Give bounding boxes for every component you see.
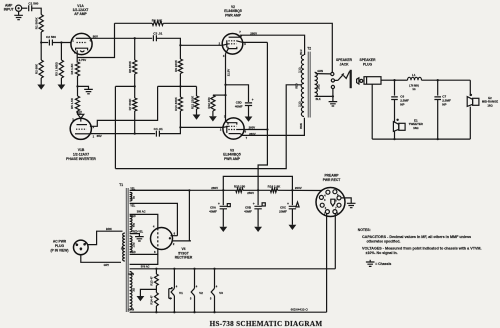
node E1 return [393, 138, 395, 140]
capacitor C7 2.5MF NP [434, 80, 451, 139]
socket PREAMP PWR RECT [316, 174, 345, 217]
svg-text:PWR AMP: PWR AMP [225, 13, 242, 17]
tube V4 5Y3GT RECTIFIER [151, 224, 191, 254]
node R8 bottom bus [134, 85, 136, 87]
capacitor C1 560 [28, 2, 38, 12]
wire jack sleeve down [332, 89, 334, 102]
wire socket pin6 to ground [341, 198, 351, 203]
wire V2 cathode down [225, 54, 227, 122]
svg-text:40MF: 40MF [244, 209, 252, 213]
svg-text:GRN: GRN [317, 70, 323, 73]
svg-text:GRN: GRN [128, 272, 134, 276]
wire T1 RED filament to V4 pin4 [130, 214, 158, 228]
wire T1 YEL top HV [130, 187, 190, 191]
label BLU [300, 49, 303, 54]
wire V1B cathode to C4 line [90, 133, 135, 135]
label 200V [295, 186, 302, 190]
node C4 left junction [134, 132, 136, 134]
node V1A cathode bottom [76, 85, 78, 87]
capacitor C5B 40MF [244, 190, 265, 227]
svg-text:3Ω: 3Ω [133, 196, 136, 199]
wire V4 output riser [189, 190, 190, 241]
label .26 ohm [318, 84, 321, 89]
svg-text:250V: 250V [247, 191, 254, 195]
svg-text:20MF: 20MF [279, 209, 287, 213]
ground under C5C [289, 225, 297, 230]
svg-text:3.0V: 3.0V [76, 110, 82, 114]
wire V2 screen to riser [243, 41, 268, 43]
svg-text:R4 1.5K: R4 1.5K [70, 63, 74, 75]
speaker jack J2 [331, 58, 353, 88]
wire V1B plate to right [90, 86, 158, 126]
svg-text:GRY: GRY [104, 263, 110, 267]
wire V1A cathode down [76, 54, 78, 62]
wire socket pin8 heater [334, 214, 336, 269]
resistor R9 220K [174, 45, 183, 86]
speaker plug P2 [357, 58, 381, 84]
resistor R12 150 [207, 95, 226, 116]
capacitor C4 .01 [135, 127, 181, 137]
node cathode C5D branch [224, 84, 226, 86]
svg-text:4: 4 [324, 194, 326, 198]
svg-text:BLU: BLU [300, 49, 303, 54]
label 2.1 ohm lower [298, 101, 301, 106]
svg-text:BRN: BRN [300, 123, 303, 129]
svg-text:7: 7 [239, 30, 241, 34]
ground at hum balance [137, 296, 145, 301]
resistor R2 68K [35, 43, 44, 85]
wire V4 filament stub [157, 249, 159, 255]
part number 66D64433-O [291, 307, 309, 311]
svg-text:V3: V3 [219, 291, 223, 295]
svg-text:.5Ω: .5Ω [133, 288, 136, 292]
speaker E1 TWEETER 16 ohm [393, 118, 423, 139]
ground at socket pin6 [347, 203, 356, 207]
wire feedback cathode segment [78, 23, 115, 57]
svg-text:PLUG: PLUG [55, 244, 65, 248]
label V4 [175, 247, 193, 260]
resistor R6 10K [115, 18, 164, 25]
wire to V2 grid [180, 44, 221, 46]
wire V2 plate to T2 [240, 35, 305, 55]
grid entry triangle V1B [78, 114, 84, 118]
svg-text:BRN: BRN [106, 227, 112, 231]
node V3 grid junction [179, 126, 181, 128]
svg-text:65V: 65V [97, 134, 102, 138]
label BRN lead [106, 227, 112, 231]
svg-text:±10%. No signal in.: ±10%. No signal in. [366, 251, 398, 255]
socket pins [319, 190, 341, 216]
wire V1A plate to C3 node [91, 37, 135, 39]
svg-text:40MF: 40MF [235, 105, 243, 109]
svg-text:4: 4 [196, 285, 198, 289]
wire B plus bus [132, 189, 236, 191]
ground under C5B [254, 227, 262, 232]
wire hum balance to ground [140, 289, 156, 296]
wire feedback to speaker jack [163, 23, 332, 72]
svg-text:V1B: V1B [78, 148, 85, 152]
tube V2 EL84/6BQ5 PWR AMP [219, 5, 247, 58]
ground chassis symbol in notes [366, 260, 392, 267]
node C7 return [437, 138, 439, 140]
node 260V [222, 189, 224, 191]
svg-text:NOTES:: NOTES: [358, 228, 371, 232]
inductor L1 .76MH [395, 73, 471, 91]
svg-text:1: 1 [72, 38, 74, 42]
label 65V at V1B cathode [97, 134, 102, 138]
svg-text:V1: V1 [179, 291, 183, 295]
node R3 top [60, 41, 62, 43]
wire right bias bus [158, 85, 197, 87]
node 250V [257, 189, 259, 191]
notes text block [358, 228, 482, 255]
svg-text:380 AC: 380 AC [137, 210, 146, 214]
resistor R13 47 [150, 269, 159, 293]
wire T2 secondary bottom to jack [316, 95, 333, 97]
wire 260V feed up [223, 176, 292, 190]
node R14 bottom [155, 311, 157, 313]
svg-text:RED: RED [130, 214, 136, 218]
wire plug return [371, 84, 373, 139]
heater V2 filament [190, 268, 203, 314]
resistor R11 220K [190, 86, 198, 114]
resistor R5 1.5K [70, 86, 81, 114]
node R9 bottom bus [179, 85, 181, 87]
svg-text:RED-YEL: RED-YEL [133, 231, 144, 234]
ground under C5A [219, 227, 227, 232]
svg-text:AC PWR: AC PWR [53, 239, 67, 243]
capacitor C5A 40MF [209, 190, 230, 227]
label 250V [247, 191, 254, 195]
svg-text:T2: T2 [307, 47, 311, 51]
resistor R3 1 MEG [54, 43, 63, 85]
wire to V3 grid [180, 126, 223, 128]
resistor R8 330K [128, 38, 137, 86]
svg-text:3: 3 [324, 198, 326, 202]
socket keyway [331, 199, 335, 206]
wire T2 secondary top to jack [316, 73, 331, 75]
svg-text:2.1Ω: 2.1Ω [298, 67, 301, 72]
svg-text:260V: 260V [211, 186, 218, 190]
svg-text:5: 5 [190, 296, 192, 300]
svg-text:C2 560: C2 560 [46, 35, 56, 39]
label 2.1 ohm upper [298, 67, 301, 72]
svg-text:R5 1.5K: R5 1.5K [70, 97, 74, 109]
wire heater bus bottom GRN [128, 307, 326, 312]
resistor R1 560K [35, 15, 44, 33]
svg-text:2.75V: 2.75V [79, 58, 87, 62]
svg-text:INPUT: INPUT [4, 8, 14, 12]
svg-text:16Ω: 16Ω [487, 103, 493, 107]
ground under R2 [37, 85, 45, 90]
wire C1 to R1 [32, 8, 42, 14]
svg-text:R9 220K: R9 220K [174, 59, 178, 72]
wire socket pin1 heater [326, 214, 328, 313]
svg-text:2: 2 [173, 242, 175, 246]
label V3 [223, 148, 241, 161]
node jack sleeve / secondary [332, 95, 334, 97]
label 2.75V [79, 58, 87, 62]
svg-text:R1 560K: R1 560K [35, 17, 39, 30]
node grid junction [40, 41, 42, 43]
input connector J1 AMP INPUT [4, 3, 22, 11]
transformer T1 power [119, 183, 132, 312]
svg-text:5V6 AC: 5V6 AC [141, 266, 150, 269]
svg-text:otherwise specified.: otherwise specified. [367, 240, 401, 244]
svg-text:.26Ω: .26Ω [318, 84, 321, 89]
transformer T1 winding labels [121, 196, 135, 292]
capacitor C5C 20MF [279, 190, 299, 225]
speaker E2 MID-RANGE 16 ohm [467, 80, 498, 139]
ground under R11 [193, 115, 201, 120]
ground at T1 center tap [135, 237, 144, 241]
svg-text:+: + [218, 202, 220, 206]
node cathode R12 branch [224, 94, 226, 96]
svg-text:R7 300K: R7 300K [128, 98, 132, 111]
label 11.5V [226, 69, 230, 76]
svg-text:4: 4 [176, 285, 178, 289]
svg-text:R2 68K: R2 68K [35, 63, 39, 74]
svg-text:8: 8 [154, 250, 156, 254]
svg-text:11.5V: 11.5V [226, 69, 230, 76]
label RED [295, 83, 298, 88]
svg-text:YEL: YEL [130, 204, 135, 208]
label GRN secondary [317, 70, 323, 73]
node screen riser junction [266, 128, 268, 130]
resistor R14 47 [150, 293, 159, 313]
node B plus at riser [188, 189, 190, 191]
wire T2 center tap to supply [115, 85, 301, 169]
svg-text:HS-738 SCHEMATIC DIAGRAM: HS-738 SCHEMATIC DIAGRAM [210, 320, 323, 328]
wire V3 screen to riser [244, 129, 268, 131]
capacitor C5D 40MF [235, 98, 254, 116]
svg-text:1Ω: 1Ω [412, 88, 415, 91]
svg-text:EL84/6BQ5: EL84/6BQ5 [223, 153, 241, 157]
svg-text:NP: NP [400, 103, 404, 107]
ground under C5D [245, 117, 253, 122]
svg-text:3: 3 [223, 54, 225, 58]
tube V3 EL84/6BQ5 PWR AMP [220, 114, 248, 140]
wire R16 to socket [278, 189, 322, 191]
tube V1B 1/2-12AX7 PHASE INVERTER [70, 118, 94, 140]
svg-text:R11 220K: R11 220K [190, 95, 194, 109]
wire plug to crossover [381, 79, 395, 81]
resistor R10 330K [174, 86, 183, 127]
svg-text:C1 560: C1 560 [28, 2, 38, 6]
wire crossover return bus [372, 138, 470, 140]
ground at V1A cathode node [78, 86, 93, 93]
svg-text:NP: NP [442, 103, 446, 107]
ground under R12 [209, 116, 217, 121]
node V2 grid junction [179, 44, 181, 46]
wire input to C1 [22, 7, 28, 9]
svg-text:L1: L1 [412, 73, 416, 77]
label BRN [300, 123, 303, 129]
svg-text:PWR RECT: PWR RECT [323, 178, 341, 182]
svg-text:JACK: JACK [340, 62, 350, 66]
svg-text:+: + [252, 98, 254, 102]
node crossover input [393, 79, 395, 81]
wire to C5D [226, 85, 249, 102]
node V1A plate / R8 [134, 37, 136, 39]
svg-text:4: 4 [216, 285, 218, 289]
capacitor C3 .01 [135, 32, 181, 46]
svg-text:1.5Ω: 1.5Ω [133, 242, 136, 247]
svg-text:1: 1 [93, 135, 95, 139]
svg-text:PLUG: PLUG [363, 62, 373, 66]
label V1B [66, 148, 96, 161]
svg-text:CAPACITORS - Decimal values in: CAPACITORS - Decimal values in MF, all o… [362, 235, 471, 239]
svg-text:PWR AMP: PWR AMP [224, 157, 241, 161]
svg-text:BLK: BLK [316, 98, 321, 101]
svg-text:V3: V3 [230, 148, 234, 152]
svg-text:2.1Ω: 2.1Ω [298, 101, 301, 106]
svg-text:YEL: YEL [130, 187, 135, 191]
svg-text:AF AMP: AF AMP [74, 12, 87, 16]
svg-text:+: + [253, 202, 255, 206]
resistor R7 300K [128, 86, 137, 133]
connector AC PWR PLUG [51, 239, 89, 254]
svg-text:C4 .01: C4 .01 [154, 127, 163, 131]
svg-text:95Ω: 95Ω [133, 223, 136, 228]
svg-text:5: 5 [210, 296, 212, 300]
svg-text:R13 47: R13 47 [150, 276, 154, 286]
svg-text:+: + [287, 202, 289, 206]
svg-text:PHASE INVERTER: PHASE INVERTER [66, 157, 96, 161]
ground under R3 [58, 85, 66, 90]
svg-text:200V: 200V [295, 186, 302, 190]
node R13 top [155, 268, 157, 270]
svg-text:4: 4 [153, 224, 155, 228]
wire T1 YEL lower HV to V4 plate [130, 203, 178, 235]
capacitor C6 2.5MF NP [391, 80, 409, 121]
wire T1 RED-YEL center tap [130, 231, 144, 237]
node 200V [291, 189, 293, 191]
svg-text:RED: RED [295, 83, 298, 88]
tube V1A 1/2-12AX7 AF AMP [71, 4, 92, 54]
resistor R4 1.5K [70, 62, 80, 86]
label 260V bus [211, 186, 218, 190]
label GRY lead [104, 263, 110, 267]
resistor R15 150 [234, 185, 246, 193]
title HS-738 SCHEMATIC DIAGRAM [210, 320, 323, 328]
transformer T2 output [301, 47, 317, 118]
svg-text:40MF: 40MF [209, 209, 217, 213]
node L1 output [437, 79, 439, 81]
wire R15 to R16 [243, 189, 270, 191]
svg-text:C3 .01: C3 .01 [153, 32, 162, 36]
wire T1 RED lower filament loop [130, 250, 158, 269]
wire screens riser [258, 42, 267, 190]
wire bias riser left [114, 86, 116, 168]
label 380 AC [137, 210, 146, 214]
svg-text:R14 47: R14 47 [150, 295, 154, 305]
svg-text:V2: V2 [199, 291, 203, 295]
wire left bias bus [115, 85, 134, 87]
label 260V at V3 screen [249, 126, 256, 130]
wire heater bus top GRN [128, 269, 335, 276]
svg-text:6: 6 [174, 231, 176, 235]
wire V3 plate to T2 [242, 118, 304, 136]
svg-text:16Ω: 16Ω [413, 126, 419, 130]
label 3.0V [76, 110, 82, 114]
svg-text:RECTIFIER: RECTIFIER [175, 256, 193, 260]
heater V3 filament [210, 268, 223, 314]
capacitor C2 560 [41, 35, 71, 45]
svg-text:GRN: GRN [128, 307, 134, 311]
label BLK secondary [316, 98, 321, 101]
label 260V at V2 plate [250, 31, 257, 35]
wire R1 to grid node [40, 32, 42, 43]
svg-text:66D64433-O: 66D64433-O [291, 307, 309, 311]
svg-text:VOLTAGES - Measured from point: VOLTAGES - Measured from point indicated… [362, 247, 482, 251]
svg-text:7: 7 [246, 136, 248, 140]
wire AC plug neutral GRY [81, 255, 121, 263]
svg-text:T1: T1 [119, 183, 123, 187]
ground at speaker jack [329, 102, 338, 106]
svg-text:(P IN VIEW): (P IN VIEW) [51, 248, 69, 252]
svg-text:= Chassis: = Chassis [375, 262, 391, 266]
heater V1 filament [169, 268, 183, 314]
svg-text:1/2-12AX7: 1/2-12AX7 [73, 153, 89, 157]
label 260V at V3 plate [249, 132, 256, 136]
svg-text:R3 1 MEG: R3 1 MEG [54, 61, 58, 76]
wire AC plug hot BRN [88, 231, 123, 244]
label 80V at V1A plate [93, 35, 98, 39]
svg-text:R10 330K: R10 330K [174, 96, 178, 110]
resistor R16 1.8K [268, 185, 282, 193]
svg-text:RED: RED [130, 250, 136, 254]
ground at input jack [14, 11, 23, 19]
